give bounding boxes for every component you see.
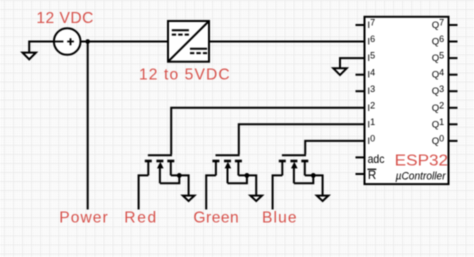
svg-text:Green: Green [193, 209, 238, 226]
svg-text:ESP32: ESP32 [395, 152, 448, 169]
svg-text:Blue: Blue [262, 209, 297, 226]
svg-text:adc: adc [368, 153, 385, 166]
svg-text:µController: µController [396, 170, 446, 182]
svg-text:12 to 5VDC: 12 to 5VDC [139, 67, 230, 84]
svg-text:12 VDC: 12 VDC [36, 10, 93, 27]
svg-text:R: R [368, 169, 376, 182]
svg-text:Red: Red [124, 209, 156, 226]
svg-text:Power: Power [59, 209, 107, 226]
